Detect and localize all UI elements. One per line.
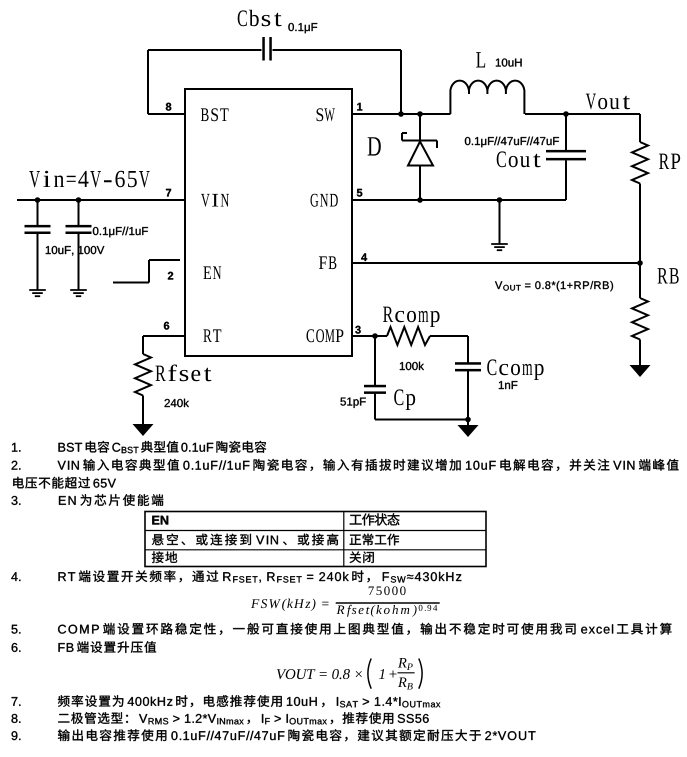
wire Cp upper — [374, 336, 376, 385]
pin label SW — [317, 108, 335, 121]
pin number 8 — [166, 103, 172, 111]
ground arrow (Rfset) — [133, 424, 154, 436]
wire Vout to Cout — [565, 114, 567, 150]
pin number 7 — [166, 189, 171, 197]
value 10uF 100V — [46, 246, 105, 256]
wire FB to divider — [352, 262, 640, 264]
wire RT to Rfset — [142, 336, 144, 354]
pin number 5 — [357, 189, 363, 197]
wire Vout to RP — [639, 114, 641, 142]
pin label VIN — [201, 194, 229, 207]
wire GND rail — [352, 199, 566, 201]
node diode-GND junction — [417, 197, 423, 203]
ground symbol (cap2) — [70, 290, 87, 296]
note 1 BST — [12, 441, 266, 453]
wire COMP pin — [352, 335, 387, 337]
wire RB to arrow — [639, 340, 641, 366]
pin number 6 — [164, 322, 169, 330]
wire cap1 upper — [37, 200, 39, 226]
node Ccomp bottom junction — [465, 417, 471, 423]
table EN states border — [145, 512, 486, 567]
table header row — [152, 513, 399, 525]
label Cout — [497, 151, 541, 167]
capacitor Cbst — [262, 37, 272, 61]
node SW-Cbst junction — [398, 111, 404, 117]
pin label GND — [311, 194, 338, 207]
note 2 VIN line1 — [12, 459, 679, 471]
wire Cbst to SW — [273, 50, 402, 114]
wire Ccomp to arrow — [467, 420, 469, 426]
label Rfset — [156, 365, 212, 382]
label L — [476, 52, 485, 67]
pin label RT — [203, 329, 221, 342]
wire Ccomp lower — [467, 371, 469, 420]
wire to earth ground — [499, 200, 501, 244]
label RP — [659, 154, 680, 169]
node Vout junction — [563, 111, 569, 117]
wire Vin input rail — [17, 199, 185, 201]
pin number 4 — [361, 253, 367, 261]
note 9 output cap — [12, 729, 536, 741]
note 6 FB — [12, 641, 157, 653]
wire Ccomp upper — [467, 336, 469, 363]
node SW-diode junction — [417, 111, 423, 117]
formula Vout=0.8*(1+RP/RB) — [495, 281, 613, 291]
label Rcomp — [383, 307, 440, 327]
note 7 inductor — [12, 695, 441, 707]
formula FSW — [251, 586, 440, 616]
diode D cathode bar — [402, 133, 437, 148]
node ground junction — [497, 197, 503, 203]
table row normal operation — [152, 534, 399, 546]
table row shutdown — [152, 551, 374, 563]
pin number 2 — [168, 272, 173, 280]
wire cap2 lower — [78, 234, 80, 291]
resistor Rcomp — [387, 327, 430, 345]
label Cp — [394, 389, 415, 410]
IC U1 body — [185, 89, 352, 356]
formula VOUT — [277, 658, 422, 690]
value 0.1uF (Cbst) — [288, 23, 317, 33]
wire EN step — [113, 260, 180, 283]
ground symbol (cap1) — [29, 290, 46, 296]
node input cap2 junction — [76, 197, 82, 203]
value 51pF — [341, 398, 366, 408]
pin number 3 — [355, 326, 360, 334]
node COMP junction — [372, 333, 378, 339]
wire cap2 upper — [78, 200, 80, 226]
capacitor Cp — [364, 385, 386, 394]
note 3 EN — [12, 494, 164, 506]
pin label EN — [203, 266, 221, 279]
capacitor Ccomp — [455, 362, 481, 371]
pin label BST — [201, 108, 229, 121]
note 4 RT — [11, 570, 461, 582]
resistor Rfset — [135, 354, 151, 396]
label Vin=4V-65V — [29, 171, 149, 188]
wire SW pin to inductor — [352, 113, 451, 115]
label Ccomp — [487, 359, 543, 380]
pin label FB — [319, 256, 337, 269]
value 1nF — [499, 381, 518, 389]
ground arrow (RB) — [630, 365, 651, 377]
note 8 diode — [12, 712, 429, 724]
pin label COMP — [307, 329, 344, 342]
value 240k — [165, 399, 189, 407]
label Vout — [586, 94, 630, 110]
pin number 1 — [357, 103, 362, 111]
label D — [368, 137, 381, 155]
label Cbst — [238, 10, 282, 27]
wire RP to FB — [639, 184, 641, 264]
wire Rcomp to Ccomp — [430, 335, 468, 337]
wire cap1 lower — [37, 234, 39, 291]
value 0.1uF//1uF — [93, 227, 148, 238]
wire Cp lower — [374, 393, 376, 419]
capacitor C1 10uF — [25, 225, 51, 234]
capacitor C2 0.1uF//1uF — [66, 225, 92, 234]
ground symbol (output) — [491, 244, 508, 250]
wire FB to RB — [639, 263, 641, 298]
resistor RB — [632, 298, 648, 340]
wire diode to GND rail — [419, 166, 421, 201]
wire SW to diode — [419, 114, 421, 140]
inductor L1 — [450, 81, 524, 114]
node FB junction — [637, 260, 643, 266]
capacitor Cout — [546, 150, 586, 161]
wire comp bottom — [375, 419, 468, 421]
value 0.1uF//47uF//47uF — [465, 137, 559, 148]
value 100k — [400, 362, 424, 370]
wire BST to Cbst top-left — [148, 50, 262, 114]
wire Cout to GND rail — [565, 161, 567, 201]
note 2 VIN line2 — [13, 477, 116, 489]
wire Rfset to arrow — [142, 396, 144, 425]
ground arrow (Ccomp) — [458, 425, 479, 437]
resistor RP — [632, 142, 648, 184]
note 5 COMP — [12, 623, 672, 635]
label RB — [658, 268, 679, 284]
node input cap1 junction — [35, 197, 41, 203]
value 10uH — [496, 59, 522, 67]
diode D triangle — [408, 142, 433, 166]
wire inductor to Vout — [525, 113, 640, 115]
wire RT pin — [143, 335, 185, 337]
